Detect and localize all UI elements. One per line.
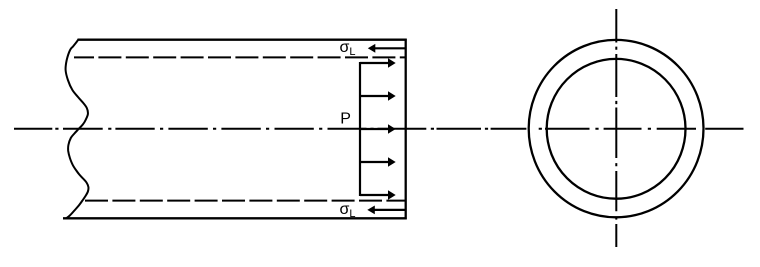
cross-section outer circle bbox=[529, 40, 704, 217]
cross-section inner circle bbox=[547, 59, 686, 199]
pipe bottom outer wall bbox=[63, 217, 407, 219]
pressure arrow 1 bbox=[360, 58, 396, 67]
pressure arrow 2 bbox=[360, 91, 396, 100]
pipe top outer wall bbox=[78, 39, 407, 41]
wavy break line (left broken end of pipe) bbox=[66, 40, 89, 219]
bottom longitudinal stress arrow (leftward) bbox=[367, 206, 405, 215]
centerline dots (horizontal axis) bbox=[55, 128, 651, 130]
top longitudinal stress arrow (leftward) bbox=[368, 44, 405, 53]
pressure arrow 5 bbox=[360, 190, 396, 199]
svg-text:σL: σL bbox=[340, 201, 356, 220]
centerline dots (vertical axis) bbox=[615, 47, 617, 220]
pressure arrow 3 (on axis) bbox=[360, 124, 396, 133]
vertical centerline of cross-section (dash-dot) bbox=[615, 9, 617, 247]
pipe bottom inner wall (dashed) bbox=[85, 200, 406, 202]
svg-text:P: P bbox=[340, 111, 351, 128]
pipe right end edge bbox=[405, 39, 407, 220]
pressure bracket vertical line bbox=[359, 62, 361, 196]
svg-text:σL: σL bbox=[340, 39, 356, 58]
pipe top inner wall (dashed) bbox=[74, 56, 406, 58]
pressure arrow 4 bbox=[360, 157, 396, 166]
horizontal centerline (axis of vessel, dash-dot) bbox=[14, 128, 744, 130]
